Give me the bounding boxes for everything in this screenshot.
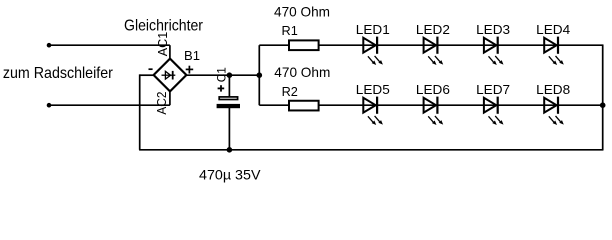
svg-text:AC1: AC1 xyxy=(155,32,170,56)
svg-text:AC2: AC2 xyxy=(154,92,169,115)
svg-text:LED3: LED3 xyxy=(476,22,510,37)
svg-text:R2: R2 xyxy=(282,84,298,99)
wire bridge minus stub xyxy=(140,74,154,76)
svg-text:LED8: LED8 xyxy=(536,82,570,97)
LED LED8 xyxy=(544,97,564,125)
wire bottom row xyxy=(259,104,602,106)
LED LED1 xyxy=(363,37,383,65)
wire AC1 stub xyxy=(169,45,171,60)
capacitor C1 xyxy=(217,85,240,108)
wire AC2 stub xyxy=(169,91,171,106)
svg-text:LED1: LED1 xyxy=(356,22,390,37)
LED LED7 xyxy=(484,97,504,125)
svg-text:zum Radschleifer: zum Radschleifer xyxy=(3,65,114,82)
node terminal bottom xyxy=(47,103,52,108)
bridge minus mark xyxy=(149,68,153,70)
wire top row xyxy=(259,44,603,46)
LED LED3 xyxy=(484,37,504,65)
svg-text:LED5: LED5 xyxy=(356,82,390,97)
wire top terminal to AC1 xyxy=(49,44,170,46)
svg-text:LED7: LED7 xyxy=(476,82,510,97)
bridge plus mark xyxy=(186,66,194,74)
wire capacitor bottom lead xyxy=(228,108,230,150)
svg-text:LED6: LED6 xyxy=(416,82,450,97)
wire bottom terminal to AC2 xyxy=(49,104,170,106)
svg-text:R1: R1 xyxy=(282,23,298,38)
LED LED2 xyxy=(424,37,444,65)
svg-text:LED4: LED4 xyxy=(536,22,570,37)
svg-text:470µ 35V: 470µ 35V xyxy=(199,167,261,182)
node junction right bottom row xyxy=(600,102,606,108)
svg-text:470 Ohm: 470 Ohm xyxy=(274,64,330,80)
wire capacitor top lead xyxy=(228,75,230,96)
bridge rectifier B1 xyxy=(154,59,187,92)
svg-text:B1: B1 xyxy=(184,48,200,63)
svg-text:LED2: LED2 xyxy=(416,22,450,37)
svg-text:C1: C1 xyxy=(215,67,229,82)
LED LED4 xyxy=(544,37,564,65)
wire right vertical xyxy=(602,45,604,151)
wire bottom rail xyxy=(139,149,603,151)
resistor R2 xyxy=(289,101,319,111)
wire junction vertical xyxy=(258,45,260,105)
LED LED6 xyxy=(424,97,444,125)
node junction rows split xyxy=(257,72,263,78)
node junction capacitor top xyxy=(227,72,233,78)
LED LED5 xyxy=(363,97,383,125)
wire bridge plus to junction xyxy=(186,74,259,76)
svg-text:470 Ohm: 470 Ohm xyxy=(274,4,330,20)
node junction capacitor bottom xyxy=(227,147,233,153)
resistor R1 xyxy=(289,40,319,50)
node terminal top xyxy=(47,43,52,48)
wire bridge minus down xyxy=(139,74,141,149)
